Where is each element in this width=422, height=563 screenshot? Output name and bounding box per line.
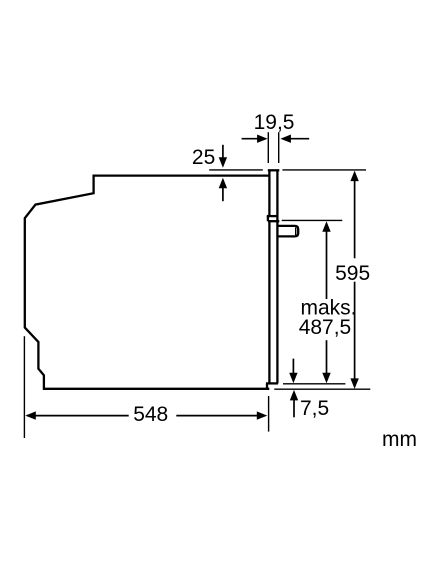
svg-text:mm: mm bbox=[382, 428, 417, 451]
svg-text:487,5: 487,5 bbox=[299, 316, 352, 339]
svg-text:548: 548 bbox=[133, 403, 168, 426]
svg-text:7,5: 7,5 bbox=[300, 397, 329, 420]
svg-text:25: 25 bbox=[192, 146, 215, 169]
svg-text:595: 595 bbox=[335, 262, 370, 285]
svg-text:19,5: 19,5 bbox=[254, 111, 295, 134]
